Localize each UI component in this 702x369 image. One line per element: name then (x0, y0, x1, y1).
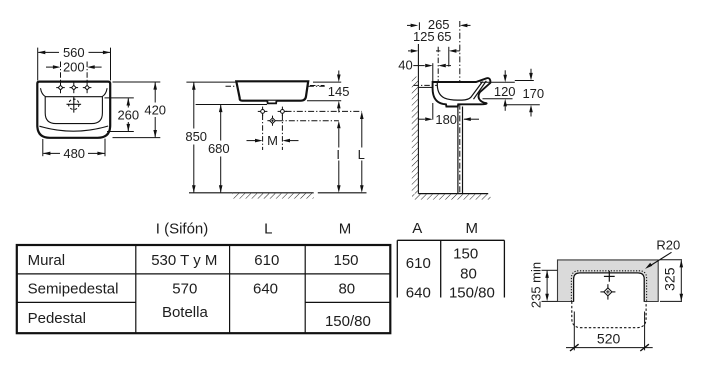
svg-text:530 T y M: 530 T y M (151, 252, 217, 269)
dimension 325 (660, 260, 682, 302)
basin section inner bowl line (437, 82, 482, 101)
drain outlet bump (267, 101, 276, 104)
dimension 235 min (542, 270, 558, 301)
svg-text:680: 680 (208, 141, 230, 156)
basin section bowl outer-surface slant (474, 81, 487, 99)
svg-text:Mural: Mural (28, 252, 66, 269)
svg-text:L: L (264, 221, 272, 238)
faucet position cross (608, 271, 610, 282)
front apron lower edge arc (39, 126, 108, 131)
svg-text:325: 325 (662, 267, 678, 291)
svg-text:235 min: 235 min (528, 262, 543, 308)
faucet hole mark left (56, 82, 65, 94)
svg-text:420: 420 (144, 102, 166, 117)
cutout solid edge (574, 273, 645, 302)
wall hatching (412, 77, 419, 194)
svg-text:I: I (336, 147, 340, 162)
table2 vertical borders (396, 240, 398, 297)
table outer border (17, 245, 391, 333)
dimension 260 (105, 98, 134, 132)
svg-text:Botella: Botella (162, 304, 209, 321)
washbasin side profile (236, 81, 308, 100)
inner bowl outline (45, 97, 102, 124)
svg-text:65: 65 (437, 29, 451, 44)
svg-text:520: 520 (597, 330, 621, 346)
svg-text:M: M (466, 220, 479, 237)
dimension 180 (418, 118, 425, 120)
svg-text:M: M (339, 221, 352, 238)
floor line right segment (318, 192, 367, 194)
basin back extension line lower (432, 103, 434, 120)
fixing point circle left (258, 107, 268, 117)
svg-text:170: 170 (522, 86, 544, 101)
dimension I (338, 128, 340, 147)
dimension 680 (196, 105, 267, 193)
svg-text:80: 80 (460, 266, 477, 283)
drain mark with dashed circle (67, 97, 82, 113)
table column lines (135, 245, 137, 333)
svg-text:I (Sifón): I (Sifón) (156, 221, 209, 238)
countertop gray slab with cutout (558, 260, 659, 302)
fixing centerline left vertical (262, 115, 264, 151)
drain pipe lines (457, 107, 459, 194)
svg-text:R20: R20 (656, 238, 680, 253)
svg-text:150: 150 (333, 252, 358, 269)
drain diamond mark (600, 284, 615, 299)
svg-text:260: 260 (117, 107, 139, 122)
svg-text:200: 200 (63, 60, 85, 75)
rim corner arc right (102, 88, 107, 97)
dimension L (361, 119, 363, 148)
faucet centerline dash-dot right (308, 85, 326, 87)
svg-text:145: 145 (328, 84, 350, 99)
svg-text:150/80: 150/80 (449, 285, 495, 302)
dimension 420 (113, 82, 161, 138)
svg-text:Semipedestal: Semipedestal (28, 281, 119, 298)
floor hatching (412, 194, 491, 199)
rim corner arc left (41, 88, 46, 97)
svg-text:570: 570 (172, 281, 197, 298)
table row line 1 (17, 273, 391, 275)
svg-text:125: 125 (413, 29, 435, 44)
svg-text:560: 560 (63, 45, 85, 60)
level centerline to L (286, 110, 362, 112)
svg-text:M: M (267, 133, 278, 148)
dimension 120 (480, 70, 515, 111)
svg-text:40: 40 (398, 58, 412, 73)
wall face line (418, 22, 420, 30)
dimension 145 (307, 71, 341, 113)
faucet hole mark center (70, 82, 79, 94)
svg-text:850: 850 (185, 129, 207, 144)
dimension 480 (43, 139, 105, 157)
svg-text:Pedestal: Pedestal (28, 310, 86, 327)
floor hatched strip (232, 192, 313, 194)
table row line 2 partial (17, 301, 136, 303)
faucet centerline dash-dot left (226, 85, 237, 87)
svg-text:610: 610 (406, 255, 431, 272)
basin dashed outline below counter (572, 302, 646, 328)
fixing centerline right vertical (281, 115, 283, 151)
line 190 from wall (448, 47, 450, 67)
dimension 850 (186, 82, 236, 192)
drain diamond mark (267, 116, 277, 126)
basin section outer profile (433, 78, 491, 106)
dimension 265 (407, 24, 411, 26)
dimension 520 (566, 312, 653, 352)
svg-text:A: A (412, 220, 422, 237)
svg-text:150: 150 (453, 245, 478, 262)
washbasin front view outer body (37, 82, 110, 138)
svg-text:80: 80 (338, 281, 355, 298)
faucet centerline vertical (437, 47, 439, 89)
basin back extension line upper (432, 63, 434, 84)
faucet level dash-dot (414, 84, 438, 86)
dimension 560 (38, 48, 111, 81)
fixing point circle right (278, 107, 288, 117)
basin rim dotted outline upper (571, 271, 646, 302)
svg-text:180: 180 (435, 112, 457, 127)
floor line left segment (189, 192, 232, 194)
svg-text:480: 480 (63, 146, 85, 161)
svg-text:150/80: 150/80 (325, 313, 371, 330)
floor line (418, 193, 488, 195)
svg-text:610: 610 (254, 252, 279, 269)
front reference dash-dot centerline (459, 21, 461, 194)
svg-text:L: L (358, 147, 365, 162)
drain centerline to I (278, 120, 339, 122)
dimension 200 (46, 62, 102, 81)
svg-text:640: 640 (253, 281, 278, 298)
svg-text:640: 640 (406, 285, 431, 302)
dimension 170 (505, 69, 540, 117)
dimension M (247, 140, 256, 142)
faucet hole mark right (83, 82, 92, 94)
table2 top border (397, 239, 504, 241)
wall mounting ledge line (419, 86, 433, 88)
svg-text:120: 120 (494, 84, 516, 99)
